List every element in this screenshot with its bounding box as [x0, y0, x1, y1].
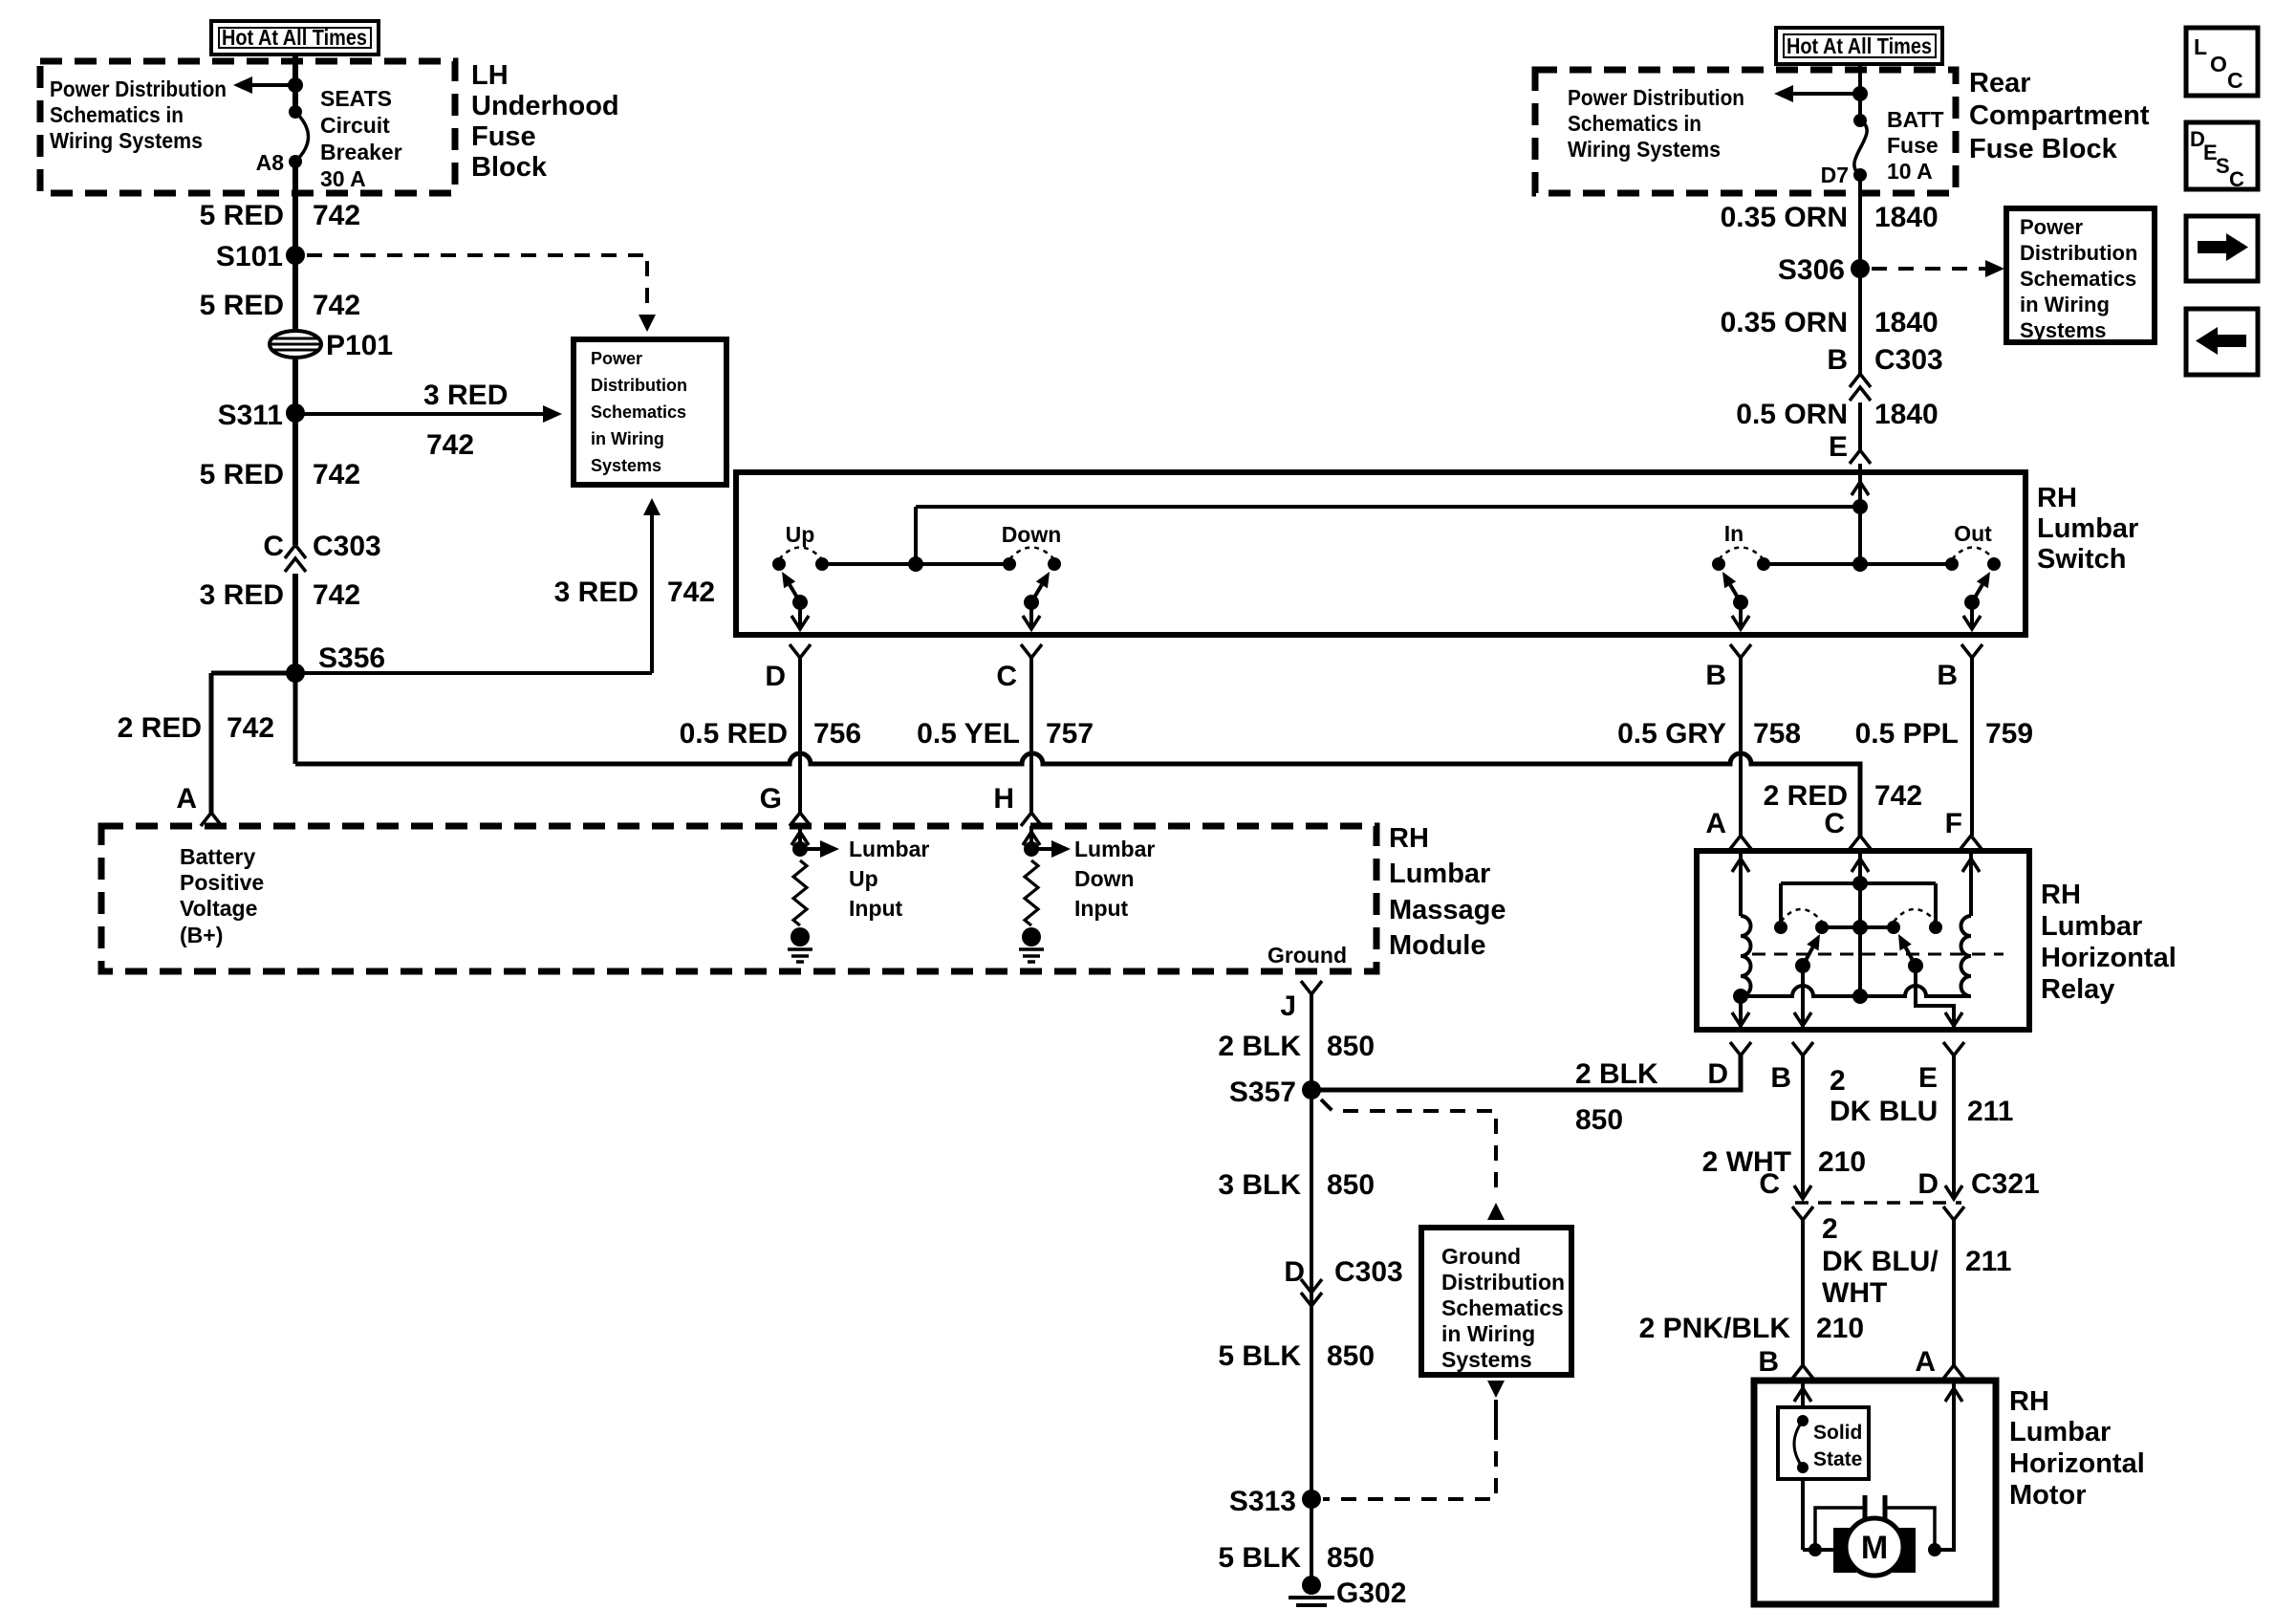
label box: Hot At All Times (left) [211, 21, 379, 54]
svg-text:30 A: 30 A [320, 166, 366, 191]
svg-text:3 RED: 3 RED [423, 380, 508, 411]
svg-text:Wiring Systems: Wiring Systems [50, 128, 203, 153]
svg-text:S306: S306 [1778, 254, 1845, 286]
switch pin C [1021, 644, 1042, 658]
svg-text:Power Distribution: Power Distribution [50, 76, 227, 101]
wire: 2 DK BLU 211 relay E to C321 [1952, 1055, 1956, 1197]
stationary contact (left) [1774, 921, 1787, 934]
svg-text:210: 210 [1816, 1313, 1864, 1344]
switch pin B (In) [1730, 644, 1751, 658]
junction at power distribution tap [288, 77, 303, 93]
svg-text:Systems: Systems [1441, 1347, 1532, 1372]
relay bottom bus connecting coils and common [1741, 986, 1971, 996]
svg-text:Solid: Solid [1813, 1422, 1862, 1444]
svg-text:S313: S313 [1229, 1486, 1296, 1517]
svg-text:Distribution: Distribution [1441, 1270, 1565, 1295]
svg-text:G: G [760, 783, 782, 815]
svg-text:5 RED: 5 RED [200, 290, 284, 321]
svg-text:Schematics in: Schematics in [50, 102, 184, 127]
switch pin B (Out) [1961, 644, 1982, 658]
svg-text:Up: Up [849, 866, 878, 891]
svg-text:210: 210 [1818, 1146, 1866, 1178]
svg-text:5 RED: 5 RED [200, 200, 284, 231]
svg-text:Down: Down [1002, 522, 1062, 547]
svg-text:0.35 ORN: 0.35 ORN [1721, 307, 1848, 338]
svg-text:(B+): (B+) [180, 923, 223, 947]
svg-text:Schematics: Schematics [1441, 1295, 1564, 1320]
wire from S356 left to battery module pin A [211, 671, 295, 676]
junction capacitor right lead [1928, 1543, 1941, 1556]
svg-text:S357: S357 [1229, 1077, 1296, 1108]
svg-text:758: 758 [1753, 718, 1801, 750]
svg-text:850: 850 [1327, 1340, 1375, 1372]
svg-text:C: C [1824, 808, 1845, 839]
svg-text:Positive: Positive [180, 870, 264, 895]
motor feed A inside [1935, 1381, 1954, 1550]
svg-text:DK BLU/: DK BLU/ [1822, 1246, 1939, 1277]
wire: internal supply line to Up/Down switches [916, 505, 1860, 509]
wire: 3 RED 742 from S356 to Power Distribution box (up arrow) [295, 671, 652, 675]
wire: 0.35 ORN 1840 from fuse to S306 [1858, 175, 1862, 374]
svg-text:C303: C303 [1874, 344, 1943, 376]
switch Out: contacts and dashed detent arc [1945, 557, 1959, 571]
dashed detent arc (left contacts) [1781, 909, 1822, 922]
wire: 0.5 GRY 758 switch B to relay A [1739, 658, 1743, 836]
svg-text:2: 2 [1830, 1065, 1846, 1097]
svg-text:Fuse Block: Fuse Block [1969, 134, 2118, 164]
internal ground: Lumbar Up input [791, 927, 810, 946]
svg-text:S101: S101 [216, 241, 283, 272]
svg-text:Breaker: Breaker [320, 140, 402, 164]
svg-text:BATT: BATT [1887, 107, 1944, 132]
dashed box: LH Underhood Fuse Block [40, 61, 455, 193]
switch In: contacts and dashed detent arc [1712, 557, 1725, 571]
svg-text:F: F [1945, 808, 1962, 839]
svg-text:Circuit: Circuit [320, 113, 390, 138]
relay coil A-D (left) [1739, 851, 1743, 916]
svg-text:Module: Module [1389, 930, 1486, 961]
svg-text:Systems: Systems [591, 456, 661, 475]
wire: In right contact to Out left contact [1764, 562, 1952, 566]
svg-text:Systems: Systems [2020, 318, 2107, 342]
relay armature to pin E [1908, 958, 1923, 973]
wire: 5 RED 742 from breaker to S101 [292, 162, 298, 332]
stationary contact (right) [1929, 921, 1942, 934]
svg-text:Distribution: Distribution [591, 376, 687, 395]
svg-text:3 RED: 3 RED [554, 577, 639, 608]
svg-text:S356: S356 [318, 642, 385, 674]
svg-text:759: 759 [1985, 718, 2033, 750]
svg-text:Input: Input [849, 896, 903, 921]
svg-text:756: 756 [813, 718, 861, 750]
reference arrow to Power Distribution (left) [250, 83, 295, 87]
dashed box: RH Lumbar Massage Module [101, 826, 1376, 971]
svg-text:RH: RH [1389, 823, 1429, 854]
svg-text:E: E [1918, 1062, 1938, 1094]
box: Ground Distribution Schematics in Wiring Systems [1421, 1228, 1571, 1375]
grommet P101 [270, 331, 321, 358]
svg-text:State: State [1813, 1448, 1862, 1470]
connector C321 pin D (motor side) [1943, 1207, 1964, 1220]
wire: battery feed from Hot At All Times into fuse block [292, 54, 298, 112]
svg-text:E: E [1829, 431, 1848, 463]
svg-text:742: 742 [667, 577, 715, 608]
switch Out: actuator arrow to pin B [1970, 602, 1974, 627]
svg-text:0.5 ORN: 0.5 ORN [1736, 399, 1848, 430]
wire: 3 RED 742 from S311 to Power Distribution box [295, 412, 545, 416]
svg-text:850: 850 [1327, 1542, 1375, 1574]
dashed detent arc (right contacts) [1894, 909, 1936, 922]
junction on stationary contact bridge [1852, 876, 1868, 891]
svg-text:Motor: Motor [2009, 1480, 2087, 1511]
wire: solid state to motor brush B [1801, 1479, 1805, 1550]
svg-text:Hot At All Times: Hot At All Times [222, 25, 367, 50]
junction at Up/Down supply tap [908, 556, 923, 572]
svg-text:0.5 RED: 0.5 RED [680, 718, 788, 750]
wire: 3 RED 742 from C303 to S356 [292, 574, 298, 673]
svg-text:Schematics: Schematics [591, 402, 686, 422]
switch In: actuator arrow to pin B [1739, 602, 1743, 627]
svg-text:B: B [1758, 1346, 1779, 1378]
svg-text:In: In [1724, 521, 1744, 546]
svg-text:C: C [996, 661, 1017, 692]
svg-text:850: 850 [1575, 1104, 1623, 1136]
svg-text:A: A [1705, 808, 1726, 839]
button box right arrow [2186, 216, 2258, 281]
connector C321 [1795, 1201, 1961, 1205]
svg-text:Massage: Massage [1389, 895, 1506, 925]
wire: 0.5 ORN 1840 from C303 to switch pin E [1858, 402, 1862, 450]
wire: battery feed into rear fuse block [1858, 64, 1862, 120]
switch Up: actuator arrow to pin D [798, 602, 802, 627]
junction of E feed with Up/Down supply line [1852, 499, 1868, 514]
svg-text:D7: D7 [1821, 163, 1849, 187]
wire: 2 DK BLU/WHT 211 C321 to motor A [1952, 1220, 1956, 1365]
svg-text:Ground: Ground [1267, 943, 1347, 968]
splice S356 [286, 664, 305, 683]
dashed reference from Ground Distribution box to S313 [1487, 1381, 1505, 1398]
button box DESC [2186, 122, 2258, 189]
button box left arrow [2186, 309, 2258, 375]
svg-text:2 BLK: 2 BLK [1218, 1031, 1301, 1062]
switch In: movable arm [1733, 595, 1748, 610]
svg-text:Out: Out [1954, 521, 1992, 546]
wire: Up right contact to Down left contact [822, 562, 1009, 566]
resistor: Lumbar Up input pull-down [793, 860, 807, 925]
solid state contact arc [1797, 1415, 1809, 1426]
relay pin B [1792, 1042, 1813, 1055]
wire: 2 WHT 210 relay B to C321 [1801, 1055, 1805, 1197]
svg-text:3 RED: 3 RED [200, 579, 284, 611]
svg-text:Power Distribution: Power Distribution [1568, 85, 1744, 110]
svg-text:Lumbar: Lumbar [1074, 837, 1155, 861]
module Lumbar Up input circuit [798, 826, 802, 849]
svg-text:L: L [2194, 34, 2207, 59]
svg-text:DK BLU: DK BLU [1830, 1096, 1938, 1127]
svg-text:2 RED: 2 RED [118, 712, 202, 744]
internal ground: Lumbar Down input [1022, 927, 1041, 946]
svg-text:757: 757 [1046, 718, 1094, 750]
svg-text:2: 2 [1822, 1213, 1838, 1245]
svg-text:H: H [993, 783, 1014, 815]
svg-text:Voltage: Voltage [180, 896, 257, 921]
svg-text:M: M [1861, 1530, 1888, 1566]
svg-text:S311: S311 [218, 400, 283, 431]
svg-text:850: 850 [1327, 1031, 1375, 1062]
splice S311 [286, 403, 305, 423]
box: RH Lumbar Horizontal Relay [1697, 851, 2029, 1030]
svg-text:B: B [1937, 660, 1958, 691]
svg-text:D: D [765, 661, 786, 692]
dashed reference arrow from S306 to Power Distribution box [1872, 267, 1986, 271]
capacitor across motor [1815, 1508, 1865, 1550]
switch Down: actuator arrow to pin C [1029, 602, 1033, 627]
svg-text:Lumbar: Lumbar [849, 837, 929, 861]
splice S101 [286, 246, 305, 265]
svg-text:2 PNK/BLK: 2 PNK/BLK [1639, 1313, 1791, 1344]
svg-text:742: 742 [313, 290, 360, 321]
svg-text:B: B [1705, 660, 1726, 691]
svg-text:0.35 ORN: 0.35 ORN [1721, 202, 1848, 233]
svg-text:Switch: Switch [2037, 544, 2126, 575]
svg-text:Compartment: Compartment [1969, 100, 2150, 131]
module Lumbar Down input circuit [1029, 826, 1033, 849]
ground G302 [1302, 1576, 1321, 1595]
svg-text:Lumbar: Lumbar [2037, 513, 2138, 544]
motor brushes [1833, 1528, 1856, 1573]
svg-text:Hot At All Times: Hot At All Times [1787, 33, 1932, 58]
box: Solid State control [1778, 1407, 1869, 1479]
relay coil F (right) [1969, 851, 1973, 916]
splice S313 [1302, 1490, 1321, 1509]
svg-text:0.5 YEL: 0.5 YEL [917, 718, 1020, 750]
svg-text:in Wiring: in Wiring [2020, 293, 2110, 316]
relay pin D exit [1739, 996, 1743, 1027]
dashed box: Rear Compartment Fuse Block [1535, 70, 1956, 193]
svg-text:C: C [2227, 68, 2243, 93]
relay pin E [1943, 1042, 1964, 1055]
svg-text:0.5 GRY: 0.5 GRY [1617, 718, 1726, 750]
svg-text:A: A [1915, 1346, 1936, 1378]
wire: 2 PNK/BLK 210 C321 to motor B [1801, 1220, 1805, 1365]
wire: 2 RED 742 bus from S356 to relay pin C [293, 673, 298, 764]
svg-text:742: 742 [313, 459, 360, 490]
svg-text:211: 211 [1965, 1246, 2011, 1277]
svg-text:742: 742 [426, 429, 474, 461]
svg-text:B: B [1827, 344, 1848, 376]
svg-text:Relay: Relay [2041, 974, 2114, 1005]
svg-text:211: 211 [1967, 1096, 2013, 1127]
svg-text:C: C [263, 531, 284, 562]
svg-text:Distribution: Distribution [2020, 241, 2137, 265]
svg-text:Lumbar: Lumbar [1389, 859, 1490, 889]
dashed mechanical link between armatures [1752, 953, 2004, 956]
svg-text:D: D [1284, 1256, 1305, 1288]
switch Up: contacts and dashed detent arc [772, 557, 786, 571]
splice S357 [1302, 1080, 1321, 1099]
svg-text:Up: Up [786, 522, 815, 547]
relay common feed from pin C [1858, 851, 1862, 996]
svg-text:3 BLK: 3 BLK [1218, 1169, 1301, 1201]
svg-text:in Wiring: in Wiring [591, 429, 664, 448]
dashed reference wire from S101 to Power Distribution box [307, 253, 647, 257]
svg-text:742: 742 [313, 579, 360, 611]
svg-text:P101: P101 [326, 330, 393, 361]
svg-text:5 BLK: 5 BLK [1218, 1340, 1301, 1372]
stationary contact bridge [1781, 881, 1936, 885]
svg-text:C303: C303 [1334, 1256, 1403, 1288]
junction at common bottom [1852, 989, 1868, 1004]
svg-text:O: O [2210, 52, 2227, 76]
svg-text:SEATS: SEATS [320, 86, 392, 111]
svg-text:Horizontal: Horizontal [2041, 943, 2177, 973]
svg-text:10 A: 10 A [1887, 159, 1933, 184]
wire: module J ground to G302 [1310, 994, 1313, 1585]
wire: relay D to splice S357 (2 BLK 850) [1311, 1055, 1741, 1090]
wire: 0.5 YEL 757 switch C to module H [1029, 658, 1033, 813]
svg-text:A8: A8 [256, 150, 285, 175]
svg-text:C: C [2229, 167, 2244, 191]
svg-text:LH: LH [471, 60, 509, 91]
dashed reference from S357 to Ground Distribution box [1321, 1099, 1496, 1189]
junction capacitor left lead [1809, 1543, 1822, 1556]
svg-text:Schematics in: Schematics in [1568, 111, 1701, 136]
wire: 5 RED 742 from P101 to S311 [292, 357, 298, 545]
svg-text:1840: 1840 [1874, 399, 1939, 430]
resistor: Lumbar Down input pull-down [1025, 860, 1038, 925]
svg-text:C321: C321 [1971, 1168, 2040, 1200]
relay pin D [1730, 1042, 1751, 1055]
svg-text:C303: C303 [313, 531, 381, 562]
svg-text:742: 742 [313, 200, 360, 231]
junction of E feed with In/Out contact line [1852, 556, 1868, 572]
button box LOC [2186, 28, 2258, 96]
svg-text:RH: RH [2009, 1386, 2049, 1417]
svg-text:A: A [176, 783, 197, 815]
svg-text:D: D [1707, 1058, 1728, 1090]
svg-text:Battery: Battery [180, 844, 255, 869]
svg-text:Lumbar: Lumbar [2009, 1417, 2111, 1447]
svg-text:1840: 1840 [1874, 202, 1939, 233]
svg-text:0.5 PPL: 0.5 PPL [1855, 718, 1959, 750]
circuit breaker SEATS 30 A [289, 105, 302, 119]
motor feed B inside [1801, 1381, 1805, 1407]
svg-text:Underhood: Underhood [471, 91, 619, 121]
svg-text:S: S [2216, 154, 2230, 178]
svg-text:Power: Power [591, 349, 642, 368]
box: RH Lumbar Horizontal Motor [1754, 1381, 1996, 1604]
movable contact bar [1822, 925, 1894, 929]
svg-text:850: 850 [1327, 1169, 1375, 1201]
wire: 0.5 PPL 759 switch B to relay F [1970, 658, 1974, 836]
box: Power Distribution Schematics in Wiring Systems (right) [2006, 208, 2155, 342]
reference arrow to Power Distribution (right) [1791, 92, 1860, 96]
svg-text:Ground: Ground [1441, 1244, 1521, 1269]
svg-text:Fuse: Fuse [471, 121, 536, 152]
wire: E feed inside switch [1858, 472, 1862, 564]
switch pin D [790, 644, 811, 658]
svg-text:2 BLK: 2 BLK [1575, 1058, 1658, 1090]
switch Out: movable arm [1964, 595, 1980, 610]
svg-text:Lumbar: Lumbar [2041, 911, 2142, 942]
connector C321 pin C (motor side) [1792, 1207, 1813, 1220]
svg-text:Schematics: Schematics [2020, 267, 2136, 291]
svg-text:G302: G302 [1336, 1577, 1406, 1609]
svg-text:B: B [1770, 1062, 1791, 1094]
svg-text:RH: RH [2041, 880, 2081, 910]
svg-text:D: D [1917, 1168, 1939, 1200]
svg-text:Fuse: Fuse [1887, 133, 1939, 158]
svg-text:Horizontal: Horizontal [2009, 1448, 2145, 1479]
svg-text:Rear: Rear [1969, 68, 2031, 98]
svg-text:742: 742 [227, 712, 274, 744]
switch Down: movable arm [1024, 595, 1039, 610]
svg-text:Power: Power [2020, 215, 2083, 239]
svg-text:5 RED: 5 RED [200, 459, 284, 490]
svg-text:Wiring Systems: Wiring Systems [1568, 137, 1721, 162]
svg-text:in Wiring: in Wiring [1441, 1321, 1535, 1346]
svg-text:Block: Block [471, 152, 548, 183]
svg-text:WHT: WHT [1822, 1277, 1887, 1309]
svg-text:742: 742 [1874, 780, 1922, 812]
svg-text:J: J [1280, 990, 1296, 1022]
box: Power Distribution Schematics in Wiring Systems (left) [574, 339, 726, 485]
svg-text:C: C [1759, 1168, 1780, 1200]
junction at coil A-D bottom [1733, 989, 1748, 1004]
svg-text:Down: Down [1074, 866, 1135, 891]
switch Up: movable arm [792, 595, 808, 610]
label box: Hot At All Times (right) [1776, 28, 1942, 64]
motor armature M [1846, 1518, 1903, 1576]
svg-text:RH: RH [2037, 483, 2077, 513]
wire: 0.5 RED 756 switch D to module G [798, 658, 802, 813]
junction of contact bar with common [1852, 920, 1868, 935]
switch Down: contacts and dashed detent arc [1003, 557, 1016, 571]
box: RH Lumbar Switch [736, 472, 2025, 635]
fuse BATT 10 A [1853, 114, 1867, 127]
junction at rear power tap [1852, 86, 1868, 101]
svg-text:5 BLK: 5 BLK [1218, 1542, 1301, 1574]
relay armature to pin B [1795, 958, 1810, 973]
svg-text:Input: Input [1074, 896, 1129, 921]
splice S306 [1851, 259, 1870, 278]
svg-text:1840: 1840 [1874, 307, 1939, 338]
